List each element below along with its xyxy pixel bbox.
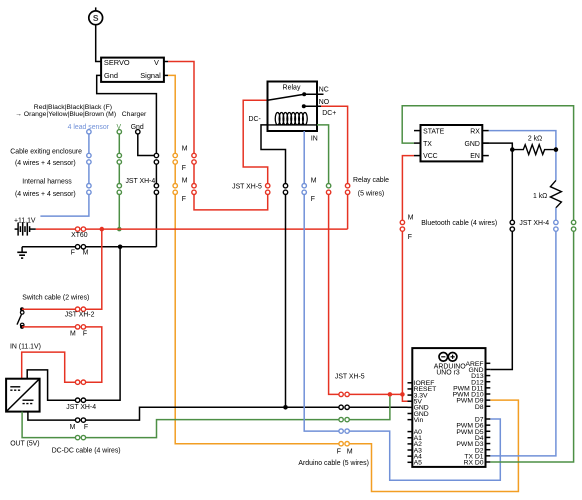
connector ring relay DC+ (green) [326, 184, 330, 188]
wire: orange signal long drop to arduino cable row [175, 194, 339, 443]
svg-text:(4 wires + 4 sensor): (4 wires + 4 sensor) [15, 160, 76, 167]
pin stub arduino PWM D10 [486, 393, 491, 395]
connector pair relay NO supply (red) [345, 184, 349, 188]
resistor R2 1k zigzag [550, 180, 561, 207]
wire: green V column mid [118, 164, 120, 184]
connector pair arduino GND (black) [339, 405, 343, 409]
connector ring: V lead top (green) [117, 130, 121, 134]
pin stub GND bt [482, 142, 489, 144]
connector pair JST XH-5 (red) [266, 184, 270, 188]
wire: gnd branch down to JST XH-4 and dc-dc input [86, 247, 121, 400]
wire: red servo V to JST XH-5 female [194, 194, 268, 210]
wire: 5V net row to arduino 5V pin [349, 394, 407, 401]
ground symbol [17, 247, 27, 258]
svg-text:IN (11.1V): IN (11.1V) [10, 343, 41, 350]
wire: bt VCC red to 5V junction [401, 231, 403, 394]
svg-text:A5: A5 [414, 460, 423, 467]
svg-text:M: M [311, 177, 317, 184]
wire: relay signal blue to arduino D7 row [304, 194, 339, 431]
connector ring: charger Gnd (black) [136, 130, 140, 134]
relay NC stub [304, 93, 323, 95]
arduino logo [439, 353, 457, 362]
pin stub arduino D2 [486, 449, 491, 451]
wire: ground row left part [22, 246, 75, 248]
svg-text:Bluetooth cable (4 wires): Bluetooth cable (4 wires) [421, 220, 497, 227]
svg-text:Relay: Relay [283, 85, 301, 92]
pin stub arduino PWM D6 [486, 424, 491, 426]
svg-text:Switch cable (2 wires): Switch cable (2 wires) [22, 294, 89, 301]
pin stub arduino GND left [408, 406, 413, 408]
wire: bluetooth TX green loop over top [402, 106, 573, 221]
wire: relay DC- to relay cable connector [261, 125, 286, 184]
wire: dc-dc OUT- to arduino GND [86, 407, 340, 420]
svg-text:GND: GND [464, 141, 479, 148]
connector pair arduino Vin (green) [339, 417, 343, 421]
svg-text:Arduino cable (5 wires): Arduino cable (5 wires) [298, 460, 368, 467]
svg-text:Relay cable: Relay cable [353, 177, 389, 184]
wire: relay gnd cable long drop [285, 194, 287, 407]
junction: bluetooth VCC joins 5V net [400, 392, 405, 397]
pin stub arduino A3 [408, 449, 413, 451]
connector pair M/F sensor row2 (blue) [87, 184, 91, 188]
connector pair JST XH-4 in (black) [75, 398, 79, 402]
connector pair M/F sensor row1 (blue) [87, 153, 91, 157]
pin stub STATE [414, 130, 421, 132]
connector pair arduino D9 (orange) [339, 442, 343, 446]
wire: gnd row to arduino GND pin [349, 406, 407, 408]
wire: blue row to arduino D7 [349, 419, 500, 480]
wire: bluetooth RX blue [489, 131, 556, 181]
wire: orange signal column mid [174, 164, 176, 184]
svg-text:F: F [408, 234, 412, 241]
svg-text:V: V [154, 58, 159, 67]
svg-text:+11.1V: +11.1V [14, 217, 36, 224]
connector pair XT60 (red) [75, 227, 79, 231]
wire: JST XH-5 male up to relay COM [243, 100, 268, 183]
svg-text:F: F [182, 165, 186, 172]
pin stub arduino D7 [486, 418, 491, 420]
junction: dc-dc 5V joins 5V net [388, 392, 393, 397]
pin stub arduino D4 [486, 436, 491, 438]
dc-dc diagonal [6, 379, 40, 412]
pin stub arduino A1 [408, 437, 413, 439]
wire: switch output loop down to lower pair [86, 327, 102, 382]
connector pair bt GND (black) [510, 220, 514, 224]
connector pair dc-dc out 5V (green) [75, 435, 79, 439]
relay NC contact dot [302, 92, 306, 96]
wire: dc-dc OUT+ green row [22, 412, 75, 438]
relay NO stub [304, 105, 321, 107]
svg-text:VCC: VCC [423, 153, 438, 160]
svg-text:TX: TX [423, 141, 432, 148]
wire: green to arduino RX D0 [490, 231, 573, 462]
wire: servo shaft stub above S circle [95, 7, 97, 10]
wire: switch bottom terminal right [22, 326, 76, 328]
svg-text:2 kΩ: 2 kΩ [528, 136, 542, 143]
wire: bluetooth VCC red down [402, 156, 414, 221]
svg-text:F: F [71, 250, 75, 257]
pin stub arduino PWM D9 [486, 399, 491, 401]
junction: green V taps +11.1V rail [117, 227, 122, 232]
connector pair arduino D7 (blue) [339, 429, 343, 433]
connector pair bt VCC M/F (red) [400, 220, 404, 224]
wire: black to dc-dc IN- top [27, 370, 75, 400]
svg-text:D8: D8 [475, 404, 484, 411]
pin stub arduino Vin left [408, 419, 413, 421]
svg-text:F: F [83, 331, 87, 338]
svg-text:SERVO: SERVO [104, 58, 130, 67]
wire: black gnd column mid [155, 164, 157, 184]
svg-text:JST XH-4: JST XH-4 [125, 178, 155, 185]
junction: switch feed on rail [100, 227, 105, 232]
svg-text:(4 wires + 4 sensor): (4 wires + 4 sensor) [15, 191, 76, 198]
wire: black gnd column down to ground row [155, 194, 157, 246]
wire: dc-dc OUT- black row [28, 412, 76, 421]
svg-text:M: M [182, 146, 188, 153]
junction: 2k resistor left end [510, 147, 515, 152]
wire: blue sensor column upper [88, 134, 90, 154]
pin stub arduino A4 [408, 455, 413, 457]
connector pair bt RX (blue) [554, 220, 558, 224]
svg-text:JST XH-2: JST XH-2 [65, 312, 95, 319]
svg-text:Vin: Vin [414, 417, 424, 424]
junction: 2k resistor right end [554, 147, 559, 152]
wire: switched supply to dc-dc IN+ [22, 352, 76, 382]
svg-text:NC: NC [319, 86, 329, 93]
motor S1 shaft circle [89, 11, 103, 25]
connector pair bt TX (green) [571, 220, 575, 224]
wire: relay NO red to relay cable [321, 106, 348, 183]
dc-dc converter U2 box [6, 379, 40, 412]
junction: relay DC- joins gnd row [283, 405, 288, 410]
connector pair dc-dc out gnd (black) [75, 418, 79, 422]
pin stub arduino RX D0 [486, 461, 491, 463]
wire: dc-dc OUT+ to 5V net junction [86, 420, 340, 438]
bluetooth module U3 box [421, 125, 483, 161]
wire: charger Gnd to black column [138, 134, 155, 156]
svg-text:M: M [70, 424, 76, 431]
svg-text:DC-DC cable (4 wires): DC-DC cable (4 wires) [52, 447, 121, 454]
pin stub VCC [414, 155, 421, 157]
relay NO contact dot [302, 104, 306, 108]
relay armature COM to NC [268, 94, 305, 100]
connector pair M/F servo V row1 (red) [192, 153, 196, 157]
svg-text:NO: NO [319, 99, 330, 106]
wire: S circle to SERVO left top pin [96, 25, 101, 62]
svg-text:F: F [311, 196, 315, 203]
wire: relay DC+ red to 5V net row [329, 194, 339, 394]
wire: blue to arduino TX D1 [490, 231, 556, 456]
pin stub arduino PWM D11 [486, 387, 491, 389]
svg-text:STATE: STATE [423, 129, 445, 136]
connector pair M/F gnd row2 (black) [154, 184, 158, 188]
wire: red servo column mid [193, 164, 195, 184]
wire: rail to switch top via JST XH-2 [86, 229, 102, 309]
svg-text:→ Orange|Yellow|Blue|Brown (M): → Orange|Yellow|Blue|Brown (M) Charger [15, 111, 147, 118]
svg-text:JST XH-5: JST XH-5 [335, 373, 365, 380]
svg-text:F: F [182, 196, 186, 203]
svg-text:Internal harness: Internal harness [22, 178, 72, 185]
wire: bt GND to arduino right GND [490, 231, 512, 369]
pin stub arduino A2 [408, 443, 413, 445]
connector pair JST XH-2 (red) [75, 307, 79, 311]
connector pair arduino 5V (red) [339, 392, 343, 396]
svg-text:1 kΩ: 1 kΩ [533, 193, 547, 200]
pin stub arduino PWM D3 [486, 443, 491, 445]
pin stub RX [482, 130, 489, 132]
svg-text:RX: RX [470, 129, 480, 136]
connector pair M/F V row2 (green) [117, 184, 121, 188]
dc-dc output DC mark [23, 400, 34, 403]
svg-text:M: M [182, 178, 188, 185]
wire: +11.1V rail XT60 to relay cable [86, 228, 348, 230]
connector pair switched supply (red) [75, 380, 79, 384]
pin stub arduino IOREF left [408, 382, 413, 384]
wire: servo Gnd down-right to black column [97, 75, 157, 153]
pin stub arduino 3.3V left [408, 394, 413, 396]
wire: blue sensor column mid [88, 164, 90, 184]
pin stub arduino D13 [486, 375, 491, 377]
connector pair relay gnd (black) [283, 184, 287, 188]
svg-text:JST XH-4: JST XH-4 [519, 220, 549, 227]
svg-text:Signal: Signal [140, 71, 161, 80]
connector ring relay DC+ female (red) [326, 190, 330, 194]
arduino U4 box [412, 348, 485, 467]
connector ring: sensor cable top (blue) [87, 130, 91, 134]
svg-text:M: M [70, 331, 76, 338]
wire: relay IN blue drop [303, 131, 305, 184]
pin stub arduino 5V left [408, 400, 413, 402]
svg-text:RX D0: RX D0 [464, 460, 484, 467]
wire: switch top terminal to JST XH-2 [22, 308, 76, 310]
pin stub TX [414, 142, 421, 144]
wire: servo Signal orange down column [168, 75, 175, 153]
pin stub arduino TX D1 [486, 455, 491, 457]
svg-text:XT60: XT60 [71, 232, 88, 239]
wire: blue below 1k to connector [555, 208, 557, 221]
pin stub arduino D8 [486, 405, 491, 407]
connector pair M/F servo V row2 (red) [192, 184, 196, 188]
battery BT1 symbol [15, 223, 36, 236]
wire: blue sensor column to +11.1V label [40, 194, 89, 216]
dc-dc input DC mark [10, 387, 20, 390]
relay coil baseline [268, 124, 318, 126]
connector pair M/F V row1 (green) [117, 153, 121, 157]
connector pair relay signal (blue) [302, 184, 306, 188]
resistor R1 2k zigzag [512, 145, 556, 155]
wire: servo V red down column [168, 62, 194, 154]
connector pair switch M/F (red) [75, 325, 79, 329]
wire: green row to 5V net junction riser [349, 397, 390, 420]
svg-text:M: M [83, 250, 89, 257]
pin stub arduino A0 [408, 431, 413, 433]
pin stub arduino GND [486, 368, 491, 370]
relay K1 box [268, 82, 318, 132]
pin stub arduino AREF [486, 362, 491, 364]
svg-text:S: S [93, 13, 99, 23]
pin stub arduino PWM D5 [486, 430, 491, 432]
svg-text:JST XH-5: JST XH-5 [232, 184, 262, 191]
svg-text:EN: EN [470, 153, 480, 160]
svg-text:Gnd: Gnd [104, 71, 118, 80]
pin stub arduino GND left [408, 413, 413, 415]
svg-text:(5 wires): (5 wires) [358, 190, 384, 197]
relay coil L1 [275, 113, 307, 125]
pin stub arduino RESET left [408, 388, 413, 390]
svg-text:DC+: DC+ [322, 110, 336, 117]
svg-text:IN: IN [311, 136, 318, 143]
pin stub EN [482, 155, 489, 157]
wire: orange row to arduino D9 [349, 400, 518, 491]
wire: green V column down to +11.1V rail [118, 194, 120, 229]
connector pair F/M battery gnd (black) [75, 245, 79, 249]
svg-text:JST XH-4: JST XH-4 [66, 404, 96, 411]
connector pair M/F signal row2 (orange) [173, 184, 177, 188]
wire: relay DC+ green [317, 125, 329, 184]
wire: ground row right part up into black column [86, 246, 157, 248]
wire: relay NO cable down to +11.1V rail [347, 194, 349, 229]
connector pair M/F signal row1 (orange) [173, 153, 177, 157]
svg-text:OUT (5V): OUT (5V) [10, 441, 39, 448]
svg-text:M: M [408, 214, 414, 221]
connector pair M/F gnd row1 (black) [154, 153, 158, 157]
pin stub servo Signal [164, 74, 168, 76]
pin stub servo V [164, 61, 168, 63]
svg-text:F: F [84, 424, 88, 431]
svg-text:F: F [337, 449, 341, 456]
pin stub arduino A5 [408, 461, 413, 463]
servo U1 box [101, 58, 164, 82]
svg-text:M: M [347, 449, 353, 456]
junction: dc-dc gnd branch [118, 245, 123, 250]
wire: bluetooth GND black down [482, 143, 512, 220]
svg-text:Cable exiting enclosure: Cable exiting enclosure [10, 148, 82, 155]
pin stub arduino D12 [486, 381, 491, 383]
switch S2 terminals and lever [17, 307, 24, 329]
svg-text:UNO r3: UNO r3 [436, 369, 460, 376]
wire: +11.1V rail battery to XT60 [36, 228, 76, 230]
wire: green V column upper [118, 134, 120, 154]
svg-text:DC-: DC- [249, 116, 261, 123]
